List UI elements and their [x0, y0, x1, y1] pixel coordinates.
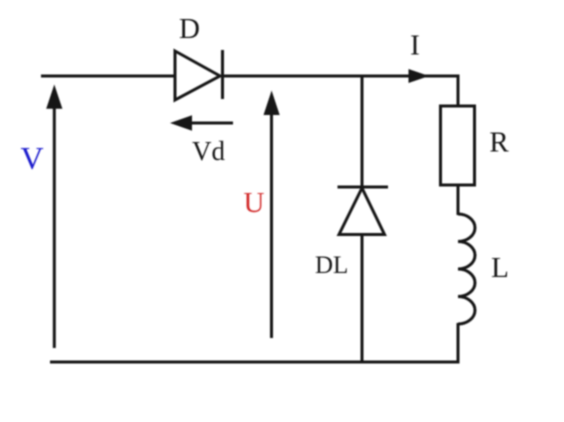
- wire: top-right segment from diode D cathode to right branch corner: [221, 75, 458, 78]
- svg-text:V: V: [20, 140, 43, 176]
- arrow Vd (diode voltage, pointing left): [170, 115, 233, 131]
- svg-text:U: U: [244, 187, 265, 219]
- svg-text:DL: DL: [315, 252, 348, 279]
- svg-text:Vd: Vd: [192, 136, 225, 166]
- wire: top-left segment from source to diode D anode: [41, 75, 175, 78]
- svg-text:R: R: [489, 127, 509, 159]
- diode DL (freewheeling diode, cathode up): [338, 187, 389, 235]
- diode D (series diode, anode left / cathode right): [175, 50, 223, 100]
- current arrow I (filled arrowhead on top wire): [409, 69, 430, 83]
- voltage arrow V (source voltage, pointing up): [46, 85, 62, 349]
- resistor R (rectangle body): [441, 106, 475, 185]
- svg-text:I: I: [410, 30, 420, 62]
- wire: right branch from inductor L down to bottom wire: [457, 323, 460, 362]
- voltage arrow U (output voltage, pointing up): [264, 91, 280, 339]
- svg-text:D: D: [179, 13, 200, 45]
- wire: DL branch upper segment (top wire down to DL cathode): [361, 76, 364, 188]
- wire: bottom return wire: [50, 361, 460, 364]
- wire: right branch from corner down to resistor R: [457, 75, 460, 108]
- svg-text:L: L: [491, 252, 509, 284]
- inductor L (4 semicircular turns bulging right): [458, 214, 475, 324]
- wire: DL branch lower segment (DL anode down to bottom wire): [361, 233, 364, 362]
- wire: segment between resistor R and inductor L: [457, 185, 460, 215]
